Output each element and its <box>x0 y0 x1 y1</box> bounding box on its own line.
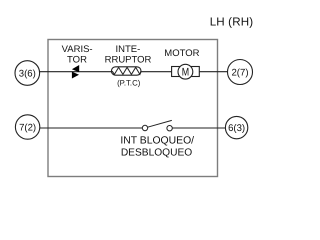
svg-text:INT BLOQUEO/: INT BLOQUEO/ <box>120 135 194 146</box>
svg-text:RRUPTOR: RRUPTOR <box>105 54 152 65</box>
wire top: terminal 3(6) to terminal 2(7) <box>40 71 228 73</box>
terminal 2(7) <box>228 60 253 85</box>
svg-text:MOTOR: MOTOR <box>164 48 199 59</box>
svg-text:7(2): 7(2) <box>19 122 36 133</box>
svg-text:LH (RH): LH (RH) <box>210 15 254 28</box>
enclosure box <box>48 40 218 177</box>
terminal 3(6) <box>15 61 40 86</box>
svg-text:2(7): 2(7) <box>231 67 248 78</box>
svg-text:3(6): 3(6) <box>19 68 36 79</box>
svg-text:VARIS-: VARIS- <box>62 44 93 55</box>
PTC interruptor (stadium with zigzag) <box>111 67 141 75</box>
motor M1 (circle with brushes) <box>172 64 200 79</box>
svg-text:TOR: TOR <box>67 54 87 65</box>
switch: lock/unlock contact <box>142 120 172 130</box>
svg-text:INTE-: INTE- <box>115 44 140 55</box>
svg-text:M: M <box>182 67 189 79</box>
svg-text:(P.T.C): (P.T.C) <box>117 78 141 87</box>
wire bottom left: terminal 7(2) to switch <box>40 127 143 129</box>
terminal 6(3) <box>225 116 247 138</box>
svg-text:DESBLOQUEO: DESBLOQUEO <box>121 147 192 158</box>
wire bottom right: switch to terminal 6(3) <box>172 127 225 129</box>
varistor symbol (two opposed filled triangles on the wire) <box>72 65 79 79</box>
svg-text:6(3): 6(3) <box>228 123 245 134</box>
terminal 7(2) <box>15 115 39 139</box>
